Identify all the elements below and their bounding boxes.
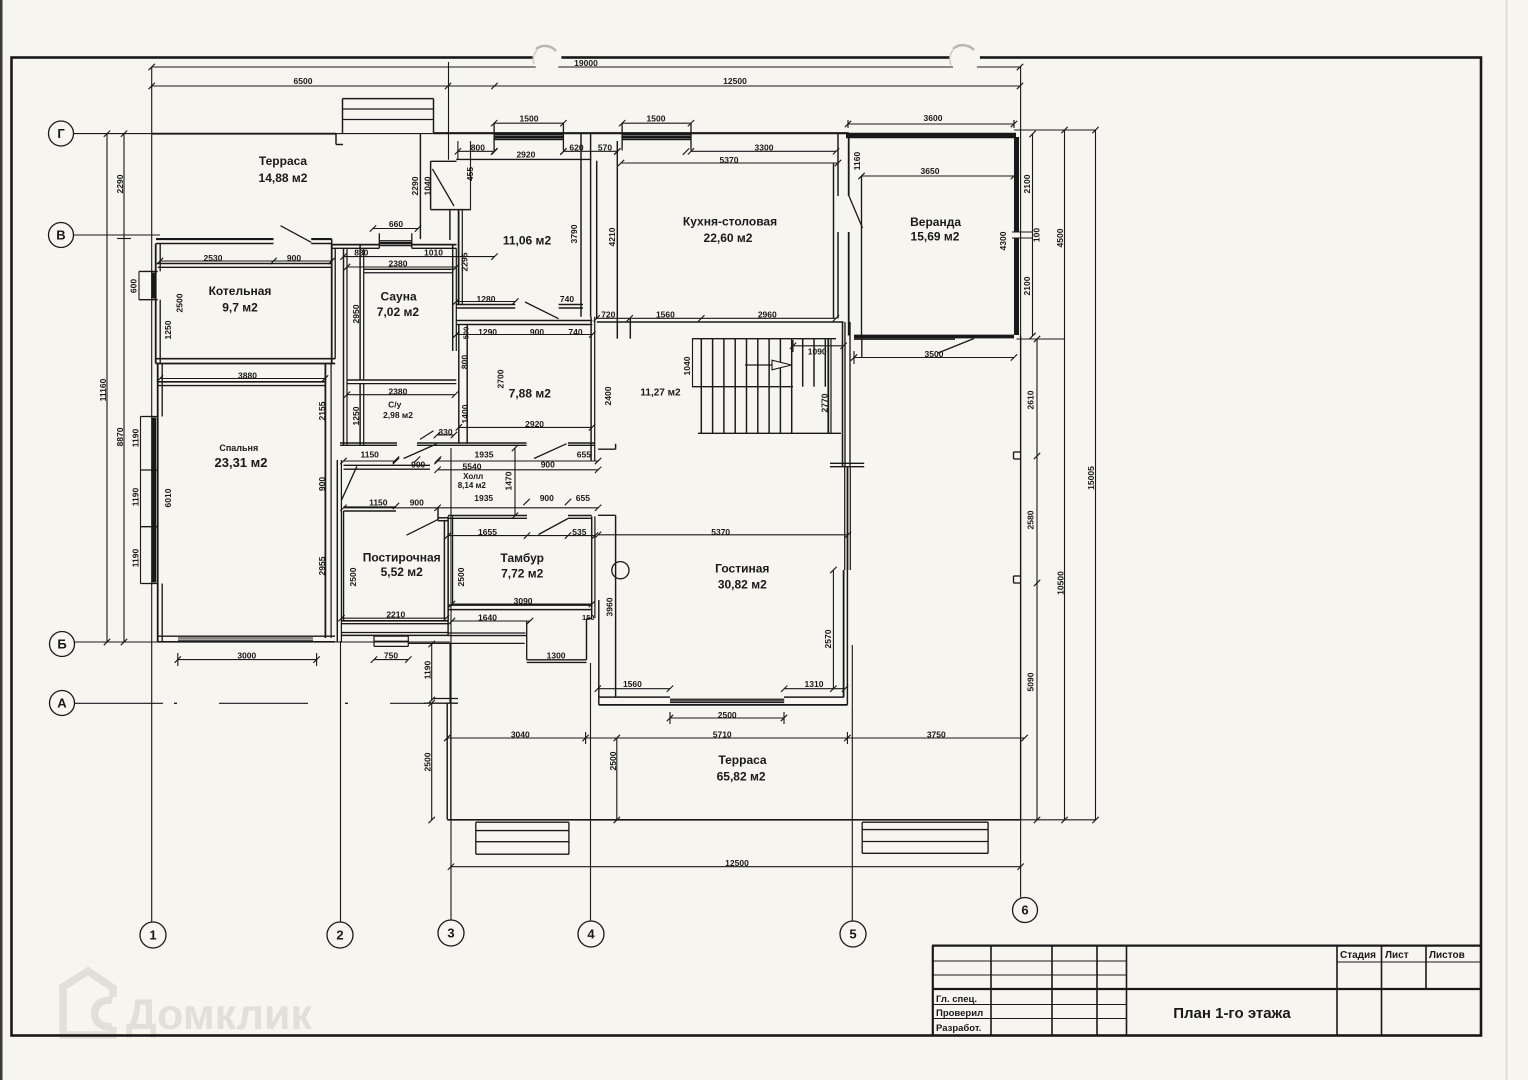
svg-text:Листов: Листов: [1429, 950, 1465, 961]
gost south inner a2: [784, 696, 844, 698]
svg-text:1040: 1040: [682, 356, 692, 375]
spalnya east b: [330, 364, 332, 639]
svg-text:Холл: Холл: [463, 472, 483, 481]
gost win c: [670, 702, 784, 704]
tambur west a: [447, 516, 449, 635]
stair tread u1: [813, 339, 815, 387]
svg-text:Котельная: Котельная: [209, 284, 272, 298]
svg-text:720: 720: [601, 310, 615, 320]
band1 a seg2: [417, 442, 527, 444]
axis circle 1: [140, 922, 166, 948]
win660 capL: [378, 233, 380, 248]
stair tread 6: [768, 339, 770, 434]
tick right mid: [1017, 338, 1065, 340]
post west a: [343, 511, 345, 621]
tick 3600 R: [1013, 120, 1015, 128]
kitchen east wall inner: [833, 163, 835, 319]
post north b: [344, 510, 397, 512]
svg-text:19000: 19000: [574, 58, 598, 68]
winW bot: [141, 583, 158, 585]
svg-text:2950: 2950: [351, 304, 361, 323]
svg-text:7,72 м2: 7,72 м2: [501, 566, 544, 580]
svg-text:800: 800: [460, 355, 470, 369]
porch west a: [446, 703, 448, 820]
post a left: [1013, 452, 1015, 459]
788 west b: [466, 325, 468, 444]
axis line 6: [1020, 66, 1022, 898]
kotelnaya south a: [156, 358, 336, 360]
dim line 2500 win: [670, 717, 784, 719]
gost nw cap b: [598, 514, 616, 516]
stair tread u2: [824, 339, 826, 387]
tambur south a: [448, 604, 592, 606]
svg-text:Разработ.: Разработ.: [936, 1023, 981, 1034]
post north c: [438, 517, 448, 519]
svg-text:2: 2: [336, 927, 343, 942]
svg-text:2380: 2380: [388, 386, 407, 396]
svg-text:1300: 1300: [547, 651, 566, 661]
axis line 3: [450, 448, 452, 920]
window1 cap R: [562, 123, 564, 150]
post south b: [342, 623, 449, 625]
step wall b: [448, 635, 527, 637]
axis line 2: [340, 641, 342, 922]
stairs dim 1040: [692, 339, 694, 387]
tick 3500 L: [853, 351, 855, 364]
sauna east a: [452, 245, 454, 351]
svg-text:1500: 1500: [520, 113, 539, 123]
svg-text:Терраса: Терраса: [259, 154, 308, 168]
svg-text:5370: 5370: [720, 155, 739, 165]
dim line 2380 su: [347, 394, 455, 396]
veranda north wall: [846, 133, 1016, 139]
svg-text:2290: 2290: [115, 174, 125, 193]
corridor west b: [340, 460, 342, 642]
axis circle 2: [327, 922, 353, 948]
post south c: [342, 632, 449, 634]
svg-text:1250: 1250: [351, 406, 361, 425]
scan edge artifact left: [0, 0, 3, 1080]
dim line 330: [437, 434, 454, 436]
axis line V: [74, 234, 161, 236]
gost east b up: [844, 322, 846, 467]
gost east b: [846, 570, 848, 705]
win660 capR: [411, 233, 413, 248]
svg-text:900: 900: [541, 460, 555, 470]
winW top: [141, 416, 158, 418]
terrace east edge: [419, 134, 421, 239]
svg-text:Проверил: Проверил: [936, 1008, 983, 1019]
kotelnaya north wall b: [158, 266, 332, 268]
tambur south b: [448, 609, 592, 611]
svg-text:9,7 м2: 9,7 м2: [222, 300, 258, 314]
axis line A dot1: [174, 702, 177, 704]
stepsBR L: [861, 822, 863, 853]
svg-text:3: 3: [447, 925, 454, 940]
porch750 R: [407, 636, 409, 646]
column circle: [612, 562, 629, 579]
post a bot: [1014, 458, 1021, 460]
window2 line a: [622, 134, 691, 136]
steps left: [342, 99, 344, 134]
axis line 4: [590, 663, 592, 921]
svg-text:535: 535: [572, 527, 586, 537]
svg-text:2920: 2920: [516, 150, 535, 160]
dim line 1090 st: [793, 345, 844, 347]
stairs arrow shaft: [745, 364, 775, 366]
east ext cap a: [830, 462, 864, 464]
dim tick 585: [585, 732, 587, 744]
V wall inner d: [412, 247, 457, 249]
stair tread 1: [712, 339, 714, 434]
corner boundary line: [448, 62, 450, 160]
spalnya north a: [158, 381, 326, 383]
svg-text:1470: 1470: [504, 471, 514, 490]
dim800 capL: [457, 141, 459, 160]
stair tread 8: [791, 339, 793, 434]
tick 2500 L: [669, 712, 671, 724]
window2 line c: [622, 139, 691, 141]
wallB b: [456, 324, 592, 326]
band1 a seg3: [568, 442, 595, 444]
svg-text:900: 900: [317, 477, 327, 491]
step wall d: [527, 661, 587, 663]
svg-text:А: А: [57, 695, 67, 710]
wallA a2: [559, 304, 583, 306]
svg-text:4300: 4300: [998, 231, 1008, 250]
svg-text:2580: 2580: [1026, 510, 1036, 529]
svg-text:1400: 1400: [460, 404, 470, 423]
su north a: [347, 379, 456, 381]
svg-text:1250: 1250: [163, 320, 173, 339]
kitchen south wall: [597, 321, 844, 323]
axis line 5: [851, 645, 853, 921]
svg-text:2500: 2500: [456, 567, 466, 586]
tick 2500 R: [783, 712, 785, 724]
east ext stub: [861, 338, 863, 357]
kotelnaya west inner: [159, 244, 161, 272]
dim line 1190p: [431, 644, 433, 700]
kotelnaya north wall: [158, 263, 332, 265]
door1040 jamb: [430, 161, 432, 209]
dim800 capR: [470, 141, 472, 210]
dim line t2500: [616, 738, 618, 820]
door1040 bottom cap: [431, 209, 471, 211]
dim row 3300: [691, 150, 836, 152]
kotelnaya east b: [334, 248, 336, 358]
terrace south edge: [447, 819, 1020, 821]
winS glaze a: [178, 637, 313, 639]
dim line 2210: [342, 617, 447, 619]
dim line 4500/10500: [1064, 130, 1066, 820]
tick 100 b: [1012, 237, 1033, 239]
winW mid1: [141, 469, 158, 471]
gost east win a: [844, 467, 846, 570]
tick3000 L: [177, 653, 179, 666]
veranda south wall: [854, 335, 1014, 339]
door terrace-kotelnaya: [281, 226, 312, 243]
axis circle B: [50, 632, 75, 657]
door 1106 leaf: [525, 302, 559, 319]
wallA b: [456, 307, 515, 309]
svg-text:23,31 м2: 23,31 м2: [215, 455, 268, 470]
tambur west b: [452, 516, 454, 605]
svg-text:Веранда: Веранда: [910, 215, 961, 229]
post east b: [447, 521, 449, 621]
dim line 3600: [848, 123, 1014, 125]
right dims bottom tick line: [1021, 819, 1096, 821]
788 west a: [458, 325, 460, 444]
dim line 3650: [862, 175, 1015, 177]
svg-text:1150: 1150: [360, 450, 379, 460]
winW glaze: [152, 418, 156, 583]
svg-text:10500: 10500: [1056, 571, 1066, 595]
tick 1090: [792, 340, 794, 352]
porch stub a: [433, 698, 458, 700]
stepsBL l1: [476, 830, 569, 832]
svg-text:1280: 1280: [477, 294, 496, 304]
svg-text:Тамбур: Тамбур: [500, 551, 544, 565]
steps top line1: [343, 98, 434, 100]
door veranda south: [938, 339, 974, 354]
svg-text:65,82 м2: 65,82 м2: [717, 769, 766, 783]
steps top line2: [343, 108, 434, 110]
svg-text:Сауна: Сауна: [381, 289, 417, 303]
stairs mid: [692, 386, 793, 388]
svg-text:2,98 м2: 2,98 м2: [383, 410, 413, 420]
house east outer: [848, 137, 850, 196]
dim line 15005: [1095, 130, 1097, 820]
svg-text:12500: 12500: [723, 76, 747, 86]
svg-text:1160: 1160: [852, 152, 862, 171]
su west b: [363, 384, 365, 445]
svg-text:3300: 3300: [755, 143, 774, 153]
dim line veranda right: [1032, 134, 1034, 336]
svg-text:22,60 м2: 22,60 м2: [704, 231, 753, 245]
post south a: [342, 620, 449, 622]
svg-text:8,14 м2: 8,14 м2: [458, 481, 487, 490]
tambur north a: [448, 515, 527, 517]
kotelnaya west outer: [155, 244, 157, 364]
gost win b: [670, 700, 784, 702]
dim tick 847: [846, 732, 848, 744]
svg-text:3790: 3790: [569, 224, 579, 243]
svg-text:Кухня-столовая: Кухня-столовая: [683, 214, 777, 228]
spalnya north b: [158, 385, 326, 387]
svg-text:7,88 м2: 7,88 м2: [509, 386, 552, 400]
svg-text:830: 830: [354, 248, 368, 258]
dim row sauna top: [344, 256, 495, 258]
band1 a seg1: [340, 442, 397, 444]
dim line 3000: [178, 659, 317, 661]
kitchen west wall inner: [616, 141, 618, 319]
dim line 1560 g: [598, 688, 670, 690]
dim line 3090: [452, 603, 592, 605]
svg-text:2100: 2100: [1022, 174, 1032, 193]
788 east b: [594, 317, 596, 461]
east ext cap b: [830, 466, 864, 468]
tambur east notch cap: [587, 618, 593, 620]
svg-text:1935: 1935: [474, 493, 493, 503]
svg-text:2700: 2700: [496, 369, 506, 388]
svg-text:2955: 2955: [317, 556, 327, 575]
tambur north c: [568, 515, 592, 517]
svg-text:2500: 2500: [175, 293, 185, 312]
divider wall b: [590, 134, 592, 317]
svg-text:3600: 3600: [924, 113, 943, 123]
win660 line b: [379, 242, 412, 244]
dim line win1 1500: [494, 122, 563, 124]
spalnya south b: [158, 641, 335, 643]
win600 left: [138, 271, 140, 299]
gost west outer: [598, 600, 600, 705]
gost west inner stub: [615, 444, 617, 449]
svg-text:14,88 м2: 14,88 м2: [259, 171, 308, 185]
svg-text:570: 570: [598, 143, 612, 153]
porch west single: [449, 643, 451, 702]
band1 b seg2: [417, 444, 527, 446]
svg-text:2500: 2500: [718, 710, 737, 720]
svg-text:2290: 2290: [410, 176, 420, 195]
svg-text:2380: 2380: [389, 259, 408, 269]
dim line 19000: [152, 66, 1020, 68]
stair tread u0: [802, 339, 804, 387]
post east a: [443, 521, 445, 621]
win600 glaze: [151, 273, 155, 299]
svg-text:Стадия: Стадия: [1340, 950, 1376, 961]
gost south inner a: [599, 696, 670, 698]
stair tread 3: [734, 339, 736, 434]
stepsBL l2: [476, 841, 569, 843]
scan artifact blob left: [533, 44, 562, 73]
svg-text:1655: 1655: [478, 527, 497, 537]
gost east a up: [842, 322, 844, 467]
svg-text:655: 655: [577, 450, 591, 460]
post north a: [344, 506, 397, 508]
win600 top: [139, 270, 158, 272]
tick 2290/8870: [117, 238, 131, 240]
house east wall mid: [837, 134, 839, 196]
dim line 2920b: [459, 426, 592, 428]
dim line 3040/5710: [447, 737, 1024, 739]
veranda east wall b: [1014, 239, 1019, 336]
window2 line b: [622, 136, 691, 139]
dim line 3880: [160, 378, 325, 380]
gost east a: [843, 570, 845, 697]
svg-text:660: 660: [389, 219, 403, 229]
stair tread 0: [700, 339, 702, 434]
win600 bot: [139, 299, 158, 301]
svg-text:800: 800: [471, 143, 485, 153]
dim row tambur top: [438, 507, 598, 509]
svg-text:150: 150: [582, 613, 595, 622]
dim row hall1: [344, 460, 397, 462]
svg-text:5710: 5710: [713, 730, 732, 740]
svg-text:1310: 1310: [805, 679, 824, 689]
wallB a: [456, 320, 592, 322]
stairs direction arrow head: [772, 360, 792, 370]
dim line 11160: [106, 134, 108, 642]
axis line A solid: [75, 702, 163, 704]
11.06 west wall a: [458, 210, 460, 305]
svg-text:В: В: [56, 227, 65, 242]
svg-text:1040: 1040: [423, 176, 433, 195]
band1 b seg3: [568, 444, 595, 446]
veranda east wall: [1014, 137, 1019, 232]
V wall inner c: [332, 247, 380, 249]
dim line 2380 sauna: [347, 266, 456, 268]
kotelnaya west inner b: [159, 300, 161, 364]
svg-text:6: 6: [1021, 902, 1028, 917]
door leaf 1040: [432, 169, 454, 206]
terrace east line: [1020, 336, 1022, 820]
winW left: [140, 417, 142, 584]
su north b: [347, 383, 456, 385]
porch upper edge: [408, 642, 524, 644]
svg-text:3960: 3960: [605, 597, 615, 616]
dim line 2610s: [1036, 339, 1038, 820]
svg-text:1560: 1560: [623, 679, 642, 689]
veranda west edge: [861, 176, 863, 335]
stair tread 7: [779, 339, 781, 434]
svg-text:2610: 2610: [1026, 390, 1036, 409]
stepsBR l0: [862, 821, 988, 823]
dim line 12500 bottom: [451, 866, 1021, 868]
band2 a: [344, 464, 431, 466]
post b bot: [1014, 582, 1021, 584]
window2 cap L: [621, 123, 623, 150]
step v1: [526, 621, 528, 659]
dim line 1470: [514, 448, 516, 516]
house east outer b: [848, 232, 850, 336]
svg-text:330: 330: [438, 427, 452, 437]
stepsBL L: [475, 822, 477, 854]
stepsBL l3: [476, 853, 569, 855]
svg-text:11,27 м2: 11,27 м2: [640, 388, 681, 399]
tick3000 R: [316, 653, 318, 666]
tambur north d: [568, 517, 592, 519]
svg-text:1010: 1010: [424, 248, 443, 258]
svg-text:2500: 2500: [348, 567, 358, 586]
V wall inner b: [311, 243, 332, 245]
svg-text:1190: 1190: [423, 661, 433, 680]
V wall outer c: [332, 244, 380, 246]
duct wall b: [346, 248, 348, 445]
window1 cap L: [493, 123, 495, 150]
svg-text:8870: 8870: [115, 427, 125, 446]
duct wall a: [343, 248, 345, 445]
porch750 l3: [374, 645, 408, 647]
dim row hall1b: [438, 460, 598, 462]
svg-text:3650: 3650: [921, 166, 940, 176]
svg-text:15005: 15005: [1086, 466, 1096, 490]
svg-text:12500: 12500: [725, 858, 749, 868]
svg-text:11,06 м2: 11,06 м2: [503, 233, 552, 247]
V wall jog: [331, 239, 333, 248]
axis line 1: [151, 67, 153, 922]
svg-text:1935: 1935: [475, 450, 494, 460]
dim row y318: [597, 317, 836, 319]
svg-text:1500: 1500: [647, 113, 666, 123]
svg-text:6010: 6010: [163, 488, 173, 507]
svg-text:1190: 1190: [131, 549, 141, 568]
window2 cap R: [690, 123, 692, 150]
svg-text:Г: Г: [57, 126, 65, 141]
dim line 5370 g: [598, 534, 848, 536]
title block rows: [933, 961, 1481, 1019]
winS glaze b: [178, 639, 313, 641]
door kitchen-veranda: [849, 196, 863, 228]
